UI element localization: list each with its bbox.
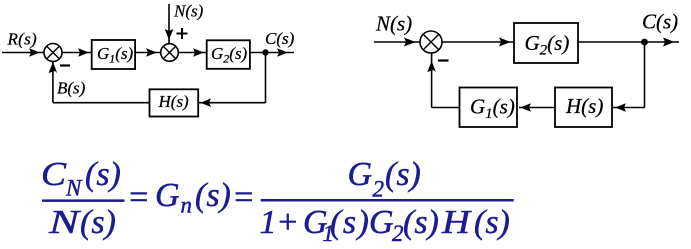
svg-text:G: G	[155, 177, 180, 214]
svg-text:N: N	[65, 176, 83, 201]
block H (left diagram)	[150, 89, 199, 116]
formula fraction bar 1	[42, 199, 125, 202]
formula numerator C_N(s)	[41, 156, 121, 201]
svg-text:(s): (s)	[474, 204, 510, 241]
wire S2 to block G2	[178, 52, 206, 54]
svg-text:N: N	[48, 204, 82, 241]
arrowhead on R(s) input wire	[29, 48, 40, 57]
node takeoff dot (right)	[641, 39, 648, 46]
svg-text:n: n	[181, 193, 193, 218]
formula denominator 1+G1(s)G2(s)H(s)	[260, 204, 510, 246]
svg-text:=: =	[232, 179, 255, 216]
arrowhead into H (pointing left)	[201, 98, 212, 107]
svg-text:(s): (s)	[80, 204, 116, 241]
wire S3 to block G2 (right)	[442, 41, 514, 43]
wire S1 to block G1	[62, 52, 92, 54]
formula numerator G2(s)	[348, 156, 421, 202]
arrowhead on output wire	[277, 48, 288, 57]
svg-text:G: G	[348, 156, 373, 193]
wire feedback into H (right)	[612, 107, 645, 109]
svg-text:C: C	[41, 156, 66, 193]
formula denominator N(s)	[48, 204, 116, 241]
formula fraction bar 2	[261, 199, 514, 202]
svg-text:1: 1	[260, 204, 277, 241]
svg-text:(s): (s)	[385, 156, 421, 193]
arrowhead into H right block (pointing left)	[615, 103, 626, 112]
svg-text:(s): (s)	[85, 156, 121, 193]
arrowhead into S2	[146, 48, 157, 57]
minus sign at S3 feedback input	[438, 59, 449, 61]
svg-text:G: G	[369, 204, 394, 241]
svg-text:G1(s): G1(s)	[470, 95, 515, 123]
arrowhead on N(s) wire	[165, 29, 174, 40]
svg-text:G2(s): G2(s)	[525, 31, 570, 59]
wire feedback up into S3	[431, 53, 433, 108]
wire feedback right segment into H	[198, 102, 266, 104]
svg-text:G2(s): G2(s)	[211, 44, 248, 66]
block G1 (left)	[92, 40, 135, 69]
svg-text:(s): (s)	[403, 204, 439, 241]
block H (right diagram)	[555, 88, 612, 128]
minus sign at S1 feedback input	[60, 64, 70, 66]
wire N(s) down into S2	[168, 4, 170, 44]
svg-text:2: 2	[373, 177, 385, 202]
wire N(s) input to summing junction S3	[374, 41, 420, 43]
svg-text:H(s): H(s)	[565, 94, 603, 118]
summing junction S2	[161, 44, 179, 62]
svg-text:R(s): R(s)	[7, 29, 38, 48]
wire G1 left segment	[432, 107, 460, 109]
arrowhead up into S3	[427, 61, 436, 72]
svg-text:B(s): B(s)	[57, 79, 86, 98]
wire takeoff down (right)	[644, 42, 646, 108]
svg-text:C(s): C(s)	[265, 29, 295, 48]
summing junction S3	[420, 31, 442, 53]
svg-text:N(s): N(s)	[173, 1, 204, 20]
svg-text:N(s): N(s)	[375, 12, 412, 36]
wire G2 to C(s) output	[250, 52, 294, 54]
arrowhead into G1	[78, 48, 89, 57]
arrowhead up into S1	[49, 62, 58, 73]
wire H to left	[53, 102, 150, 104]
summing junction S1	[44, 44, 62, 62]
wire G1 to summing junction S2	[135, 52, 161, 54]
block G2 (right)	[514, 23, 578, 63]
svg-text:H(s): H(s)	[158, 92, 190, 111]
arrowhead into G2 (right)	[499, 38, 511, 47]
svg-text:G1(s): G1(s)	[97, 44, 134, 66]
wire feedback up into S1	[52, 62, 54, 103]
wire G2 to C(s) output (right)	[578, 41, 679, 43]
svg-text:+: +	[276, 204, 299, 241]
node takeoff point dot	[262, 49, 268, 55]
svg-text:C(s): C(s)	[642, 10, 678, 34]
arrowhead on right output wire	[663, 38, 675, 47]
arrowhead into S3	[404, 38, 416, 47]
svg-text:=: =	[127, 179, 150, 216]
block G2 (left)	[207, 40, 250, 69]
arrowhead into G1 right block (pointing left)	[520, 103, 531, 112]
wire R(s) input to summing junction S1	[2, 52, 44, 54]
svg-text:H: H	[441, 204, 473, 241]
arrowhead into G2	[193, 48, 204, 57]
formula G_n(s)	[155, 177, 231, 218]
plus sign at S2 top input	[177, 28, 188, 39]
svg-text:(s): (s)	[330, 204, 370, 241]
svg-text:(s): (s)	[195, 177, 231, 214]
block G1 (right diagram)	[460, 88, 518, 128]
wire H to G1 (right)	[519, 107, 555, 109]
svg-text:2: 2	[392, 221, 404, 246]
wire takeoff down	[265, 53, 267, 103]
